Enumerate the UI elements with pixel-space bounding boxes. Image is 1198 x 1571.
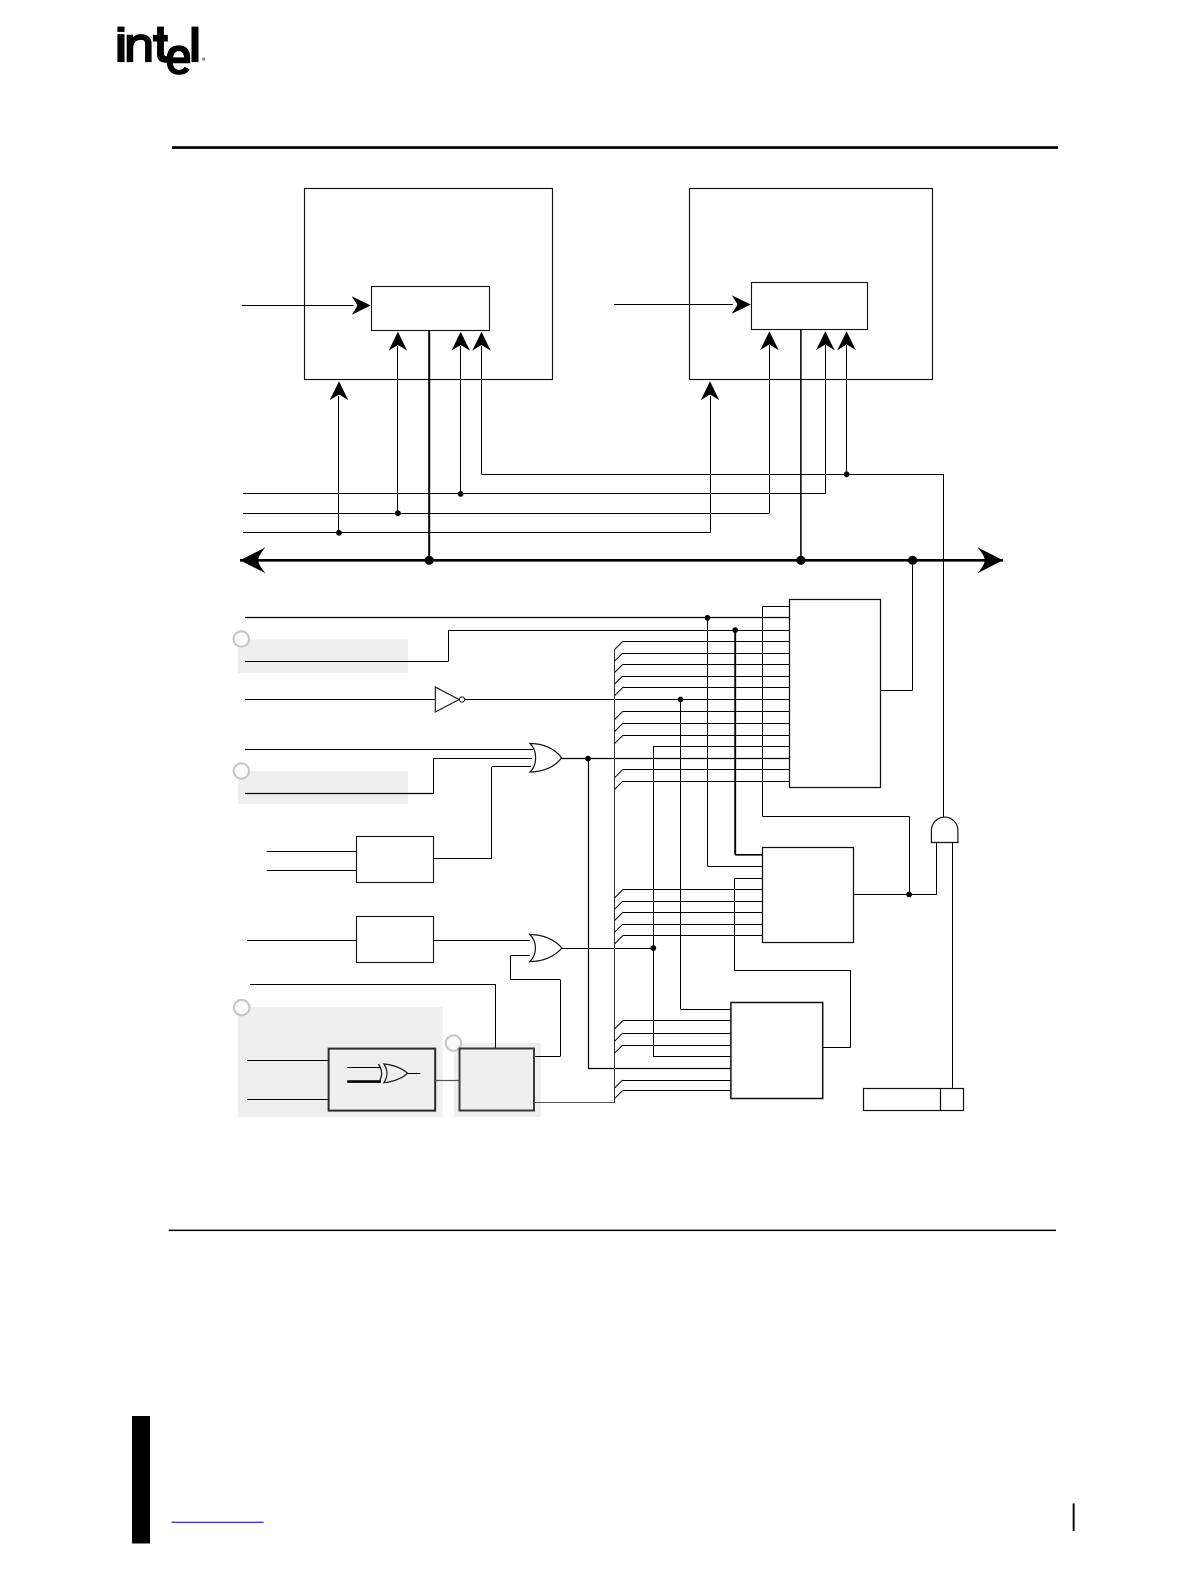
highlight region 4 marker circle [446,1035,461,1050]
wire OR1 output [562,758,790,760]
highlight region 3 marker circle [234,1000,249,1015]
bus tap into right inner register [800,330,802,561]
highlight region 3 [238,1007,443,1117]
arrow up into right inner register pin1 [769,345,771,513]
arrow up into left inner register pin1 [397,346,399,513]
block: bottom latch box [864,1089,964,1111]
block: mid decoder box2 [763,848,854,943]
wire long input to shaded box [250,984,496,986]
top rule [172,146,1058,149]
wire OR2 input2 zigzag from shaded box [511,955,530,957]
arrow into right inner register [614,304,733,306]
inverter U3 [435,687,459,712]
rake taps to mux inputs [623,641,790,643]
wire OR2 branch up to mux input [653,746,655,948]
wire OR1 branch down to bottom decoder [588,759,590,1069]
wire XOR gate input1 [347,1067,381,1069]
wire box B output [434,940,530,942]
junction W2 [395,510,401,516]
wire WB step [245,661,448,663]
block: right capture/compare module box [690,189,933,380]
wire W1 [243,493,825,495]
arrow up into right inner register pin2 [825,345,827,494]
system bus [240,559,1003,562]
wire XOR box external input2 [247,1099,329,1101]
highlight region 2 marker circle [234,763,249,778]
sidebar black bar [132,1416,150,1544]
block: mux box1 [790,600,881,788]
wire box A output [434,858,492,860]
wire box2 input loop [735,878,762,880]
wire box2 output [854,894,937,896]
latch box divider [940,1088,942,1110]
block: delay box A [357,837,434,883]
wire AND output down [952,843,954,1089]
wire WA branch down to mid decoder [707,618,709,866]
block: right inner register box [752,283,868,330]
arrow up into left inner register pin3 [481,346,483,474]
junction OR2 output [650,945,656,951]
change bar right [1073,1503,1075,1531]
or-gate U2 [530,935,562,962]
wire inverter output [465,699,790,701]
wire XOR gate input2 thick [347,1080,381,1083]
block: left capture/compare module box [305,189,553,380]
wire OR2 output [562,948,653,950]
wire box2 output up to AND [936,843,938,895]
wire net-474 vertical to AND gate [943,474,945,817]
wire OR1 input3 from delay box A [492,766,531,768]
wire box A input2 [267,870,357,872]
junction WB [732,627,738,633]
wire bus to mux output [912,560,914,690]
bus arrowhead left [240,547,266,573]
wire W3 [243,532,710,534]
or-gate U1 [530,744,562,773]
block: XOR logic box [329,1049,436,1111]
wire XOR gate output [408,1073,421,1075]
arrow up into left module box [338,396,340,533]
bottom rule [169,1230,1056,1232]
bus junction C [908,556,917,565]
arrow up into right module box [710,396,712,533]
arrow up into right inner register pin3 [846,345,848,474]
wire bracket around mux [762,606,789,608]
wire box A input1 [267,851,357,853]
Intel logo [117,27,205,75]
arrow up into left inner register pin2 [460,346,462,494]
bus junction A [425,556,434,565]
block: delay box B [357,917,434,963]
block: left inner register box [372,287,490,331]
wire OR1 input1 [245,749,533,751]
junction inverter output [678,697,684,703]
highlight region 4 [454,1043,541,1117]
wire XOR box external input1 [247,1060,329,1062]
thick wire WB branch down [734,630,736,855]
junction on net-474 [844,471,850,477]
junction OR1 output [585,756,591,762]
highlight region 2 [238,771,408,804]
wire net-474 horizontal [482,474,944,476]
wire shaded box bottom output to rake [534,1102,615,1104]
block: shaded control box [460,1049,535,1111]
footer link underline [172,1522,264,1523]
junction W1 [458,491,464,497]
bus junction B [796,556,805,565]
thick bus tap into left inner register [428,330,430,560]
bus arrowhead right [978,547,1004,573]
rake taps to mid decoder inputs [623,889,763,891]
junction W3 [336,530,342,536]
rake taps to bottom decoder inputs [623,1020,731,1022]
wire XOR box to shaded box [435,1080,459,1082]
wire inverter input [245,699,435,701]
wire inverter branch down to bottom decoder [680,700,682,1010]
wire OR2 branch down to bottom decoder [653,948,655,1057]
arrow into left inner register [242,305,354,307]
xor-gate U5 [378,1064,381,1083]
wire box B input [247,940,357,942]
and-gate U4 [931,817,958,842]
wire WA [245,617,790,619]
rake bus vertical [614,650,616,1103]
wire W2 [243,513,769,515]
wire OR1 input2 step [245,793,434,795]
junction box2 output [906,892,912,898]
highlight region 1 marker circle [234,631,249,646]
highlight region 1 [238,639,408,673]
junction WA [705,615,711,621]
block: bottom decoder box3 [731,1003,823,1099]
